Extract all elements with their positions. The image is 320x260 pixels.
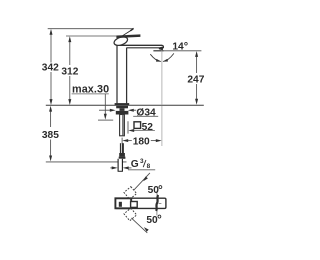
dimension 180 line right segment xyxy=(151,140,158,142)
base plate on counter xyxy=(115,103,130,105)
dimension 247 down arrow xyxy=(195,99,198,105)
dia34 left arrow line xyxy=(99,109,111,111)
bottom 50 arrowhead xyxy=(144,227,149,232)
dia34 left arrowhead xyxy=(110,109,116,112)
aerator underside line xyxy=(153,50,163,52)
plan break mark (S stroke) xyxy=(156,195,158,211)
max.30 down arrow xyxy=(104,114,107,120)
faucet top edge / spout top xyxy=(116,44,162,46)
top 50 leader line xyxy=(134,173,150,190)
square52 arrowhead xyxy=(128,129,134,132)
dimension 312 vertical line xyxy=(69,39,71,66)
G3/8 connector foot xyxy=(119,157,126,159)
svg-text:°: ° xyxy=(158,183,163,197)
plan lever end bar xyxy=(119,202,122,207)
dimension 247 vertical line xyxy=(196,56,198,73)
supply tube xyxy=(118,159,123,171)
14 deg left arrowhead xyxy=(156,59,161,62)
shank segment xyxy=(120,108,125,111)
lever raised position line xyxy=(123,29,133,35)
max.30 leader vertical xyxy=(104,94,106,114)
svg-text:342: 342 xyxy=(42,63,59,74)
dimension 180 left tick xyxy=(121,138,123,144)
extension line spout top (y=36) xyxy=(66,35,136,37)
dimension 180 left arrowhead xyxy=(122,139,128,142)
plan body rectangle xyxy=(115,198,166,208)
bottom 50 leader line xyxy=(131,218,147,233)
G3/8 left arrowhead xyxy=(112,166,118,169)
svg-text:247: 247 xyxy=(187,75,204,86)
svg-text:3: 3 xyxy=(140,158,144,165)
G3/8 right line xyxy=(128,167,131,169)
square52 symbol xyxy=(134,122,141,129)
svg-text:180: 180 xyxy=(133,137,150,148)
plan centerline upper xyxy=(156,191,158,195)
G3/8 underline xyxy=(128,169,155,171)
threaded shank xyxy=(120,115,125,136)
dimension 342 vertical line xyxy=(50,31,52,63)
G3/8 thread bar xyxy=(120,143,124,153)
dimension 385 vertical line xyxy=(50,111,52,128)
dimension 385 down arrow xyxy=(49,156,52,162)
outlet centerline below counter xyxy=(161,106,163,146)
svg-text:52: 52 xyxy=(142,122,154,133)
outlet centerline above counter xyxy=(161,51,163,105)
bottom reference line (385) xyxy=(46,161,127,163)
svg-text:Ø34: Ø34 xyxy=(136,108,156,119)
counter bottom short line xyxy=(98,119,113,121)
G3/8 right arrowhead xyxy=(123,166,129,169)
svg-text:G: G xyxy=(131,159,139,170)
washer below counter xyxy=(116,106,128,109)
dimension 312 up arrow xyxy=(68,36,71,42)
dashed diamond top (handle swivel +50) xyxy=(124,187,137,200)
plan body left thick part xyxy=(115,198,131,208)
lever tip tick at end of top extension line xyxy=(130,28,133,30)
dimension 385 up arrow xyxy=(49,106,52,112)
svg-text:312: 312 xyxy=(61,67,78,78)
svg-text:385: 385 xyxy=(42,130,59,141)
extension line top (lever max height, y=28.7) xyxy=(48,28,134,30)
14 deg arc xyxy=(150,54,160,61)
svg-text:14: 14 xyxy=(172,42,184,53)
plan centerline lower xyxy=(156,211,158,215)
spout bottom edge xyxy=(127,47,160,49)
mounting nut xyxy=(116,111,129,115)
14 deg right arrowhead xyxy=(163,59,168,62)
plan square boss xyxy=(131,202,138,208)
slash of 3/8 xyxy=(143,160,146,167)
dimension 312 down arrow xyxy=(68,99,71,105)
svg-text:°: ° xyxy=(157,212,162,226)
counter top line xyxy=(46,104,204,106)
G3/8 connector block xyxy=(119,153,125,157)
square52 underline xyxy=(133,130,155,132)
plan centerline tick inside right xyxy=(159,202,162,204)
lever knob (joint) xyxy=(113,35,129,47)
dimension 180 right arrowhead xyxy=(156,139,162,142)
dia34 right line to text xyxy=(133,109,137,111)
G3/8 left arrow line xyxy=(110,167,113,169)
lever blade xyxy=(116,34,140,38)
svg-text:°: ° xyxy=(184,41,188,53)
dia34 underline xyxy=(133,115,158,117)
faucet column right edge xyxy=(126,48,128,104)
dimension 180 line left segment xyxy=(128,140,132,142)
outlet extension line to 247 xyxy=(164,50,202,52)
max.30 underline xyxy=(72,93,109,95)
dimension 342 up arrow xyxy=(50,29,53,35)
square52 extension line xyxy=(127,121,129,133)
faucet column left edge xyxy=(116,45,118,103)
dimension 342 down arrow xyxy=(50,99,53,105)
dia34 right arrowhead xyxy=(128,109,134,112)
dashed diamond bottom (handle swivel -50) xyxy=(124,208,137,221)
svg-text:8: 8 xyxy=(147,163,151,170)
aerator tip (14 deg face) xyxy=(159,46,164,50)
dimension 247 up arrow xyxy=(195,51,198,57)
top 50 arrowhead xyxy=(143,176,148,181)
